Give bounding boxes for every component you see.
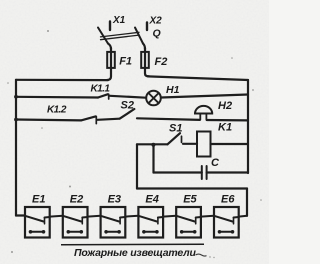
junction node row1-left <box>14 95 18 99</box>
svg-text:H2: H2 <box>218 100 232 112</box>
wire detector loop return right vertical <box>246 189 248 216</box>
relay coil K1 <box>197 132 211 157</box>
detector E4 <box>138 207 163 238</box>
svg-text:K1.1: K1.1 <box>91 84 111 95</box>
switch S2 <box>120 109 135 119</box>
wire row2 S2 to bell <box>137 118 200 120</box>
wire row1 to lamp <box>110 96 146 98</box>
contact K1.1 <box>16 96 98 99</box>
junction node row2-left <box>14 118 18 122</box>
switch S1 <box>168 133 181 144</box>
svg-text:S1: S1 <box>169 123 182 135</box>
svg-text:K1: K1 <box>218 122 232 134</box>
svg-text:S2: S2 <box>121 100 134 112</box>
wire row3 left corner down <box>136 144 138 188</box>
wire Q left pole to F1 <box>108 44 111 50</box>
svg-text:X1: X1 <box>112 15 126 26</box>
wire capacitor branch left <box>154 171 202 173</box>
svg-text:E4: E4 <box>145 194 158 206</box>
switch Q blade left <box>98 28 108 44</box>
wire row2 bell to right bus <box>207 119 248 122</box>
wire top-right from F2 to right bus <box>148 76 248 80</box>
wire detector loop return horizontal <box>137 187 247 189</box>
detectors E1..E6 <box>25 207 247 238</box>
svg-text:E2: E2 <box>70 194 83 206</box>
detector E6 <box>214 207 239 238</box>
wire left bus to E1 <box>16 214 25 216</box>
svg-text:K1.2: K1.2 <box>47 105 67 116</box>
wire capacitor branch right <box>207 171 248 173</box>
svg-text:H1: H1 <box>166 84 180 96</box>
wire S1 to relay <box>183 143 197 145</box>
wire row2 segment <box>98 119 120 120</box>
wire Q right pole to F2 <box>143 44 145 50</box>
svg-text:E5: E5 <box>183 194 197 206</box>
group line over caption <box>61 243 204 246</box>
wire capacitor branch down <box>152 144 154 172</box>
wire relay to right bus <box>211 143 249 145</box>
wire E4-E5 <box>163 215 176 218</box>
wire E2-E3 <box>88 215 101 218</box>
svg-text:Пожарные извещатели: Пожарные извещатели <box>74 247 196 259</box>
node junction C branch <box>151 143 155 147</box>
wire right bus <box>247 80 249 173</box>
switch Q link bar <box>101 32 140 39</box>
caption squiggle <box>196 254 207 256</box>
fuse F2 <box>145 48 149 76</box>
contact K1.2 <box>16 118 81 121</box>
svg-text:E6: E6 <box>221 194 235 206</box>
svg-text:E3: E3 <box>108 194 121 206</box>
svg-text:E1: E1 <box>32 194 45 206</box>
wire E1-E2 <box>50 215 63 218</box>
bell H2 <box>195 106 212 114</box>
detector E2 <box>63 207 88 238</box>
svg-text:F1: F1 <box>119 56 132 68</box>
detector E1 <box>25 207 50 238</box>
specks (scan noise) <box>7 30 262 253</box>
wire E3-E4 <box>125 215 138 218</box>
capacitor C <box>202 166 207 179</box>
wire left bus <box>15 80 17 216</box>
svg-text:C: C <box>211 157 220 169</box>
svg-text:Q: Q <box>153 28 161 40</box>
wire row1 lamp to right bus <box>161 95 248 98</box>
svg-text:X2: X2 <box>149 16 163 27</box>
switch Q blade right <box>135 28 143 44</box>
svg-text:F2: F2 <box>155 56 168 68</box>
terminal X1 <box>109 22 111 31</box>
wire E6 to return <box>239 215 247 218</box>
wire E5-E6 <box>201 215 214 218</box>
wire row3 left segment <box>137 143 168 145</box>
detector E3 <box>101 207 126 238</box>
terminal X2 <box>146 22 148 30</box>
detector E5 <box>176 207 201 238</box>
fuse F1 <box>107 48 111 80</box>
wire top-left from F1 to left bus <box>16 79 108 81</box>
lamp H1 <box>146 91 161 106</box>
